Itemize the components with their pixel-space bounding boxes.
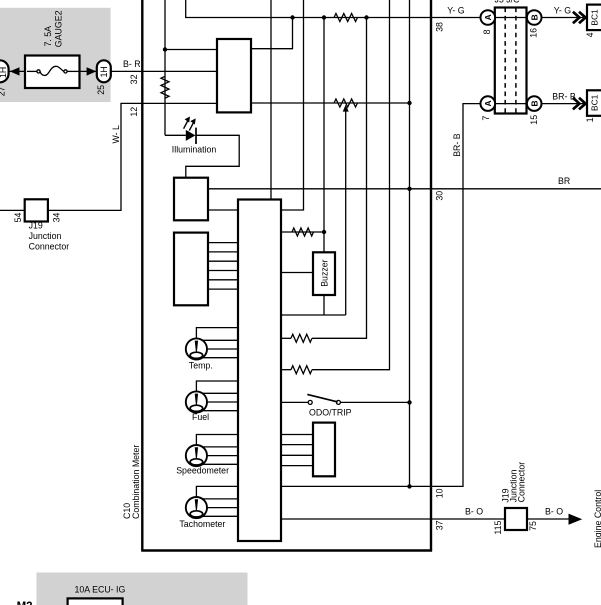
- svg-text:7: 7: [481, 116, 491, 121]
- svg-text:37: 37: [435, 520, 445, 530]
- svg-text:Tachometer: Tachometer: [179, 519, 225, 529]
- connector 1H pin 25 (right oval): [96, 60, 111, 95]
- wire x292.5 from bus to regulator right: [251, 18, 293, 49]
- svg-text:BC1: BC1: [590, 9, 600, 26]
- fuse block shading (top left): [0, 8, 111, 102]
- svg-text:Illumination: Illumination: [172, 144, 217, 154]
- svg-text:B: B: [529, 100, 539, 106]
- wire illumination feed (x165 from top): [164, 0, 166, 135]
- wire y315 to meter circuit box: [281, 314, 346, 316]
- svg-text:J19: J19: [29, 221, 43, 231]
- resistor R1 (illumination, vertical on x165): [161, 76, 169, 98]
- node dot at (165,49.5): [163, 47, 167, 51]
- node dot (409.5,188.8): [407, 187, 411, 191]
- svg-text:BR- B: BR- B: [552, 91, 576, 101]
- svg-text:54: 54: [13, 213, 23, 223]
- svg-text:Connector: Connector: [29, 241, 70, 251]
- svg-text:1H: 1H: [0, 67, 8, 78]
- svg-text:Combination Meter: Combination Meter: [131, 445, 141, 519]
- printed circuit box A: [174, 178, 208, 221]
- wire fuse left lead: [9, 70, 25, 72]
- node dot (409.5,103): [407, 101, 411, 105]
- svg-text:32: 32: [129, 74, 139, 84]
- wires LCD to meter circuit box (4 lines): [281, 435, 313, 466]
- node dot (409.5,402.4): [407, 400, 411, 404]
- wire BR-B from B15 to BC1: [542, 103, 588, 105]
- arrow into pin 27 (points left): [10, 67, 20, 75]
- rheostat zigzag: [334, 99, 358, 107]
- connector BC1 pin 4: [585, 5, 601, 38]
- svg-text:A: A: [483, 14, 493, 20]
- svg-text:4: 4: [585, 32, 595, 37]
- svg-text:GAUGE2: GAUGE2: [54, 10, 64, 47]
- connector circle B pin 15: [527, 96, 542, 124]
- wire x366.5 from bus down to resistor R4: [312, 18, 367, 339]
- wire box A to meter circuit box (y210): [208, 209, 238, 211]
- svg-text:BR- B: BR- B: [452, 133, 462, 157]
- wire fuse right lead: [80, 70, 98, 72]
- svg-text:16: 16: [528, 28, 538, 38]
- svg-text:Temp.: Temp.: [189, 360, 213, 370]
- ODO/TRIP switch: [281, 394, 410, 417]
- wire BR (pin 30) from printed circuit box to right edge: [208, 188, 601, 190]
- buzzer: [313, 252, 335, 295]
- wire top bus y17.5 (pin 38 feed): [186, 0, 481, 18]
- svg-text:Fuel: Fuel: [192, 412, 209, 422]
- gauge Fuel: [186, 381, 238, 413]
- node dot (292.5,17.5): [290, 15, 294, 19]
- wire buzzer bottom to y315: [323, 295, 325, 315]
- resistor R2 (on top bus): [334, 14, 358, 22]
- svg-text:Speedometer: Speedometer: [176, 466, 229, 476]
- wire x271 from top to meter circuit box: [270, 0, 272, 200]
- wire LED cathode to printed circuit box: [186, 135, 239, 177]
- rheostat wiper arrow and wire x346: [345, 110, 347, 315]
- svg-text:Buzzer: Buzzer: [319, 259, 329, 286]
- wire x409.5 from top down to pin 10 line: [409, 0, 411, 486]
- junction connector J19 (left): [13, 199, 69, 251]
- svg-text:B- O: B- O: [465, 507, 483, 517]
- node dot (324,17.5): [322, 15, 326, 19]
- LED illumination: [165, 117, 216, 155]
- wire B-R from fuse to pin 32 and regulator: [111, 70, 217, 72]
- svg-text:J5 J/C: J5 J/C: [495, 0, 521, 4]
- node dot (409.5,486.4): [407, 484, 411, 488]
- resistor R3 line (buzzer feed y232): [281, 231, 324, 233]
- svg-text:Connector: Connector: [517, 462, 527, 503]
- svg-text:Engine Control: Engine Control: [593, 490, 601, 548]
- svg-text:27: 27: [0, 86, 7, 96]
- svg-text:BC1: BC1: [590, 94, 600, 111]
- connector circle A pin 7: [481, 96, 496, 120]
- svg-text:38: 38: [435, 22, 445, 32]
- connector circle A pin 8: [481, 10, 496, 34]
- node dot (366.5,17.5): [364, 15, 368, 19]
- wire B-O to engine control module: [527, 518, 570, 520]
- wire from J19 to left edge: [0, 209, 25, 211]
- svg-text:8: 8: [482, 29, 492, 34]
- svg-text:Y- G: Y- G: [447, 6, 464, 16]
- svg-text:1H: 1H: [99, 66, 109, 77]
- node dot (324,232): [322, 230, 326, 234]
- junction connector J5 (top right): [495, 8, 527, 114]
- combination meter C10 outline: [122, 0, 432, 551]
- chevron arrow to BC1 (top): [573, 12, 586, 24]
- connector BC1 pin 1: [585, 90, 601, 122]
- svg-text:25: 25: [96, 85, 106, 95]
- svg-text:B: B: [529, 14, 539, 20]
- printed circuit box B: [174, 233, 208, 306]
- svg-text:1: 1: [585, 117, 595, 122]
- connector circle B pin 16: [527, 10, 542, 38]
- svg-text:Y- G: Y- G: [554, 6, 571, 16]
- wire from node to regulator left (y49.5): [165, 49, 217, 51]
- meter circuit box (central): [238, 200, 281, 542]
- svg-text:ODO/TRIP: ODO/TRIP: [309, 408, 352, 418]
- resistor R5 (y369.7): [281, 366, 312, 374]
- svg-text:10: 10: [435, 488, 445, 498]
- svg-text:75: 75: [528, 521, 538, 531]
- LCD box: [313, 423, 335, 477]
- chevron arrow to BC1 (lower): [573, 98, 586, 110]
- arrow into pin 25 (points right): [87, 67, 97, 75]
- svg-text:7. 5A: 7. 5A: [43, 26, 53, 47]
- wire pin 10 line (y486.4) to BR-B riser: [281, 104, 481, 487]
- svg-text:115: 115: [493, 520, 503, 534]
- gauge Speedometer: [186, 435, 238, 467]
- fuse 10A ECU-IG box (cut at bottom): [68, 598, 123, 605]
- svg-text:BR: BR: [558, 176, 570, 186]
- wire pin 37 line (B-O): [281, 518, 505, 520]
- svg-text:B- R: B- R: [123, 59, 141, 69]
- regulator box (top): [217, 39, 251, 112]
- svg-text:10A ECU- IG: 10A ECU- IG: [75, 584, 126, 594]
- gauge Tachometer: [186, 486, 238, 518]
- wire W-L pin 12 (to J19): [48, 103, 217, 210]
- rheostat line y103 (regulator to x409.5): [251, 102, 410, 104]
- svg-text:15: 15: [529, 115, 539, 125]
- wire x324 from bus to buzzer resistor node: [323, 18, 325, 233]
- svg-text:B- O: B- O: [545, 507, 563, 517]
- resistor R3: [292, 228, 314, 236]
- resistor R4 (y338.3): [281, 334, 312, 342]
- ECU-IG fuse block shading (bottom): [37, 573, 248, 605]
- wire B-O out of meter to J19 covered above; junction connector J19 (bottom right): [493, 462, 538, 535]
- svg-text:M2: M2: [17, 601, 33, 605]
- connector 1H pin 27 (left oval, cut at edge): [0, 60, 9, 96]
- svg-text:30: 30: [435, 191, 445, 201]
- svg-text:12: 12: [129, 107, 139, 117]
- wire buzzer left to meter circuit box: [281, 272, 313, 274]
- wire Y-G from B16 to BC1: [542, 17, 588, 19]
- wire buzzer top: [323, 232, 325, 252]
- svg-text:34: 34: [51, 213, 61, 223]
- svg-text:A: A: [483, 100, 493, 106]
- wires box B to meter circuit box (6 lines): [208, 243, 238, 290]
- wire x303.5 from top to meter circuit box right: [281, 0, 304, 210]
- svg-text:Junction: Junction: [29, 231, 62, 241]
- wire x389.5 from top down to resistor R5: [312, 0, 390, 370]
- arrow to engine control module: [569, 514, 583, 525]
- gauge Temp: [186, 328, 238, 360]
- svg-text:W- L: W- L: [111, 125, 121, 144]
- fuse F1 7.5A GAUGE2: [25, 10, 80, 88]
